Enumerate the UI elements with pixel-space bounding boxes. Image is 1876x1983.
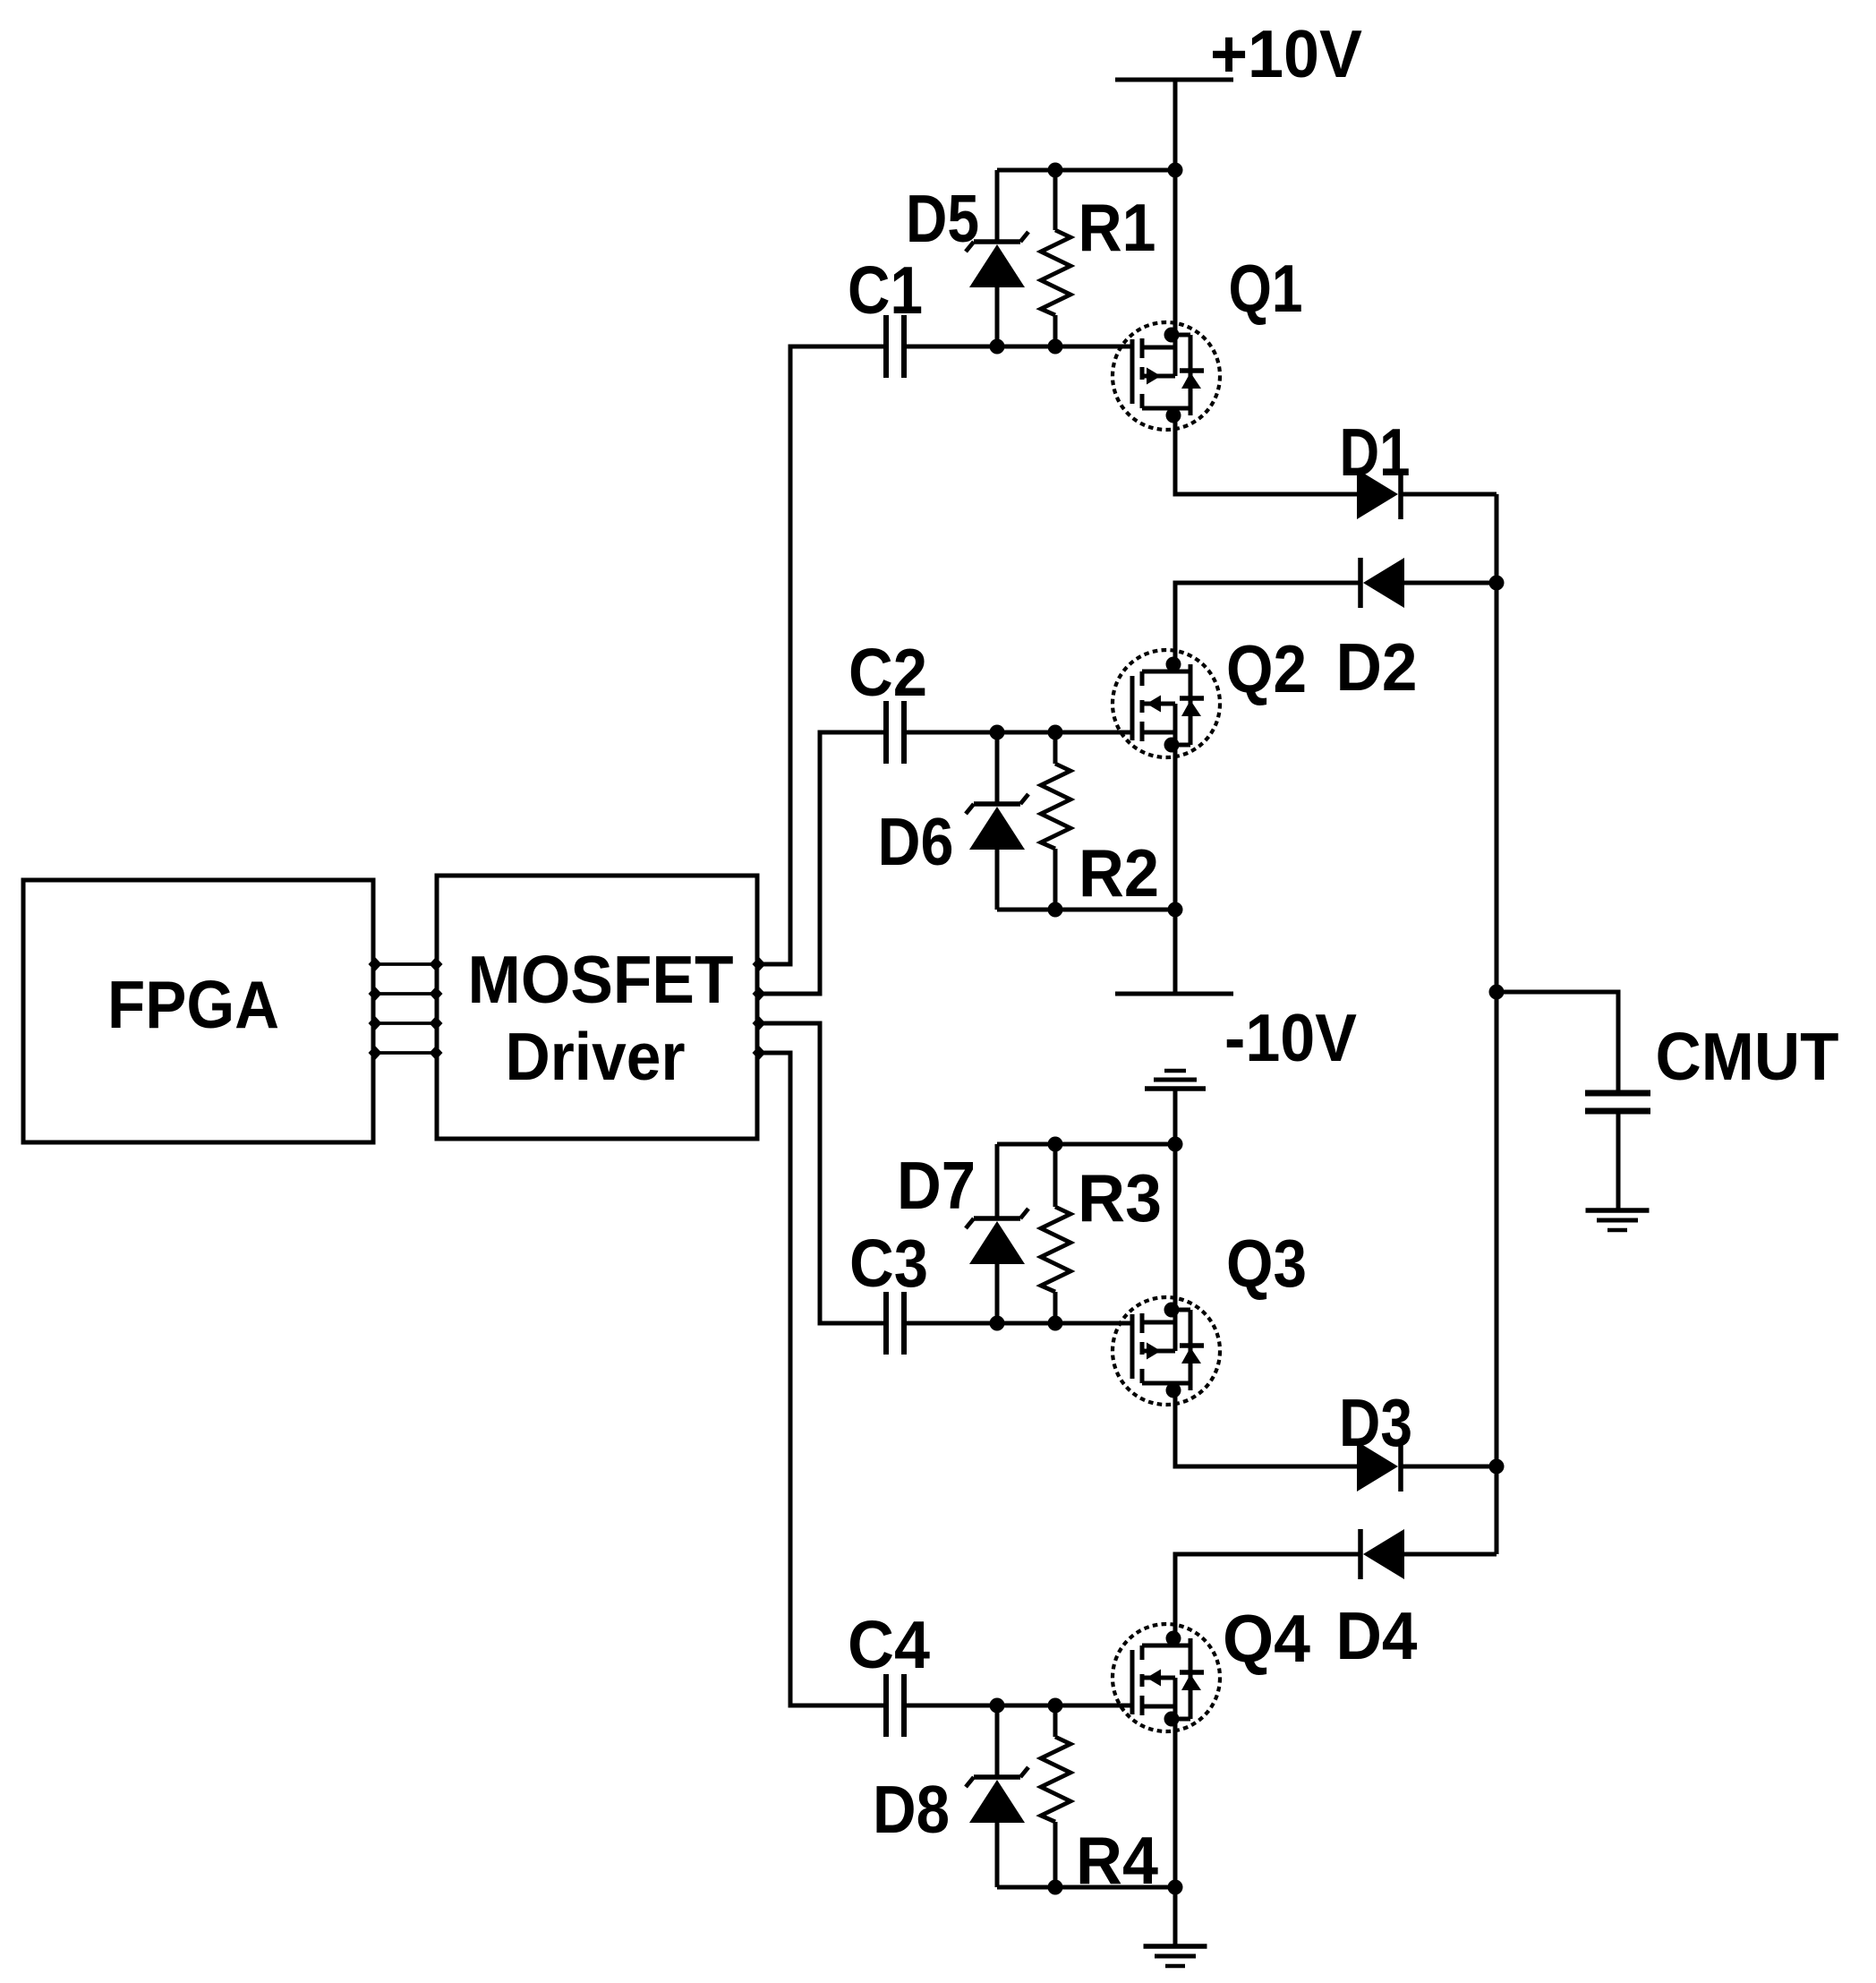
label D4 <box>1336 1598 1418 1673</box>
pin dot <box>430 1016 443 1030</box>
svg-text:R2: R2 <box>1079 835 1159 910</box>
node junction <box>1048 1880 1063 1895</box>
wire driver out 1 to C1 <box>757 346 884 964</box>
svg-text:D2: D2 <box>1336 629 1418 705</box>
label D8 <box>873 1772 950 1847</box>
pin dot <box>430 957 443 971</box>
wire FPGA to driver signal 2 <box>373 992 437 996</box>
node junction <box>1048 339 1063 355</box>
power -10V tap <box>1145 1071 1206 1144</box>
node junction <box>990 725 1005 740</box>
svg-text:Q3: Q3 <box>1226 1226 1307 1301</box>
wire C3 to Q3 gate <box>907 1321 1132 1326</box>
node junction <box>1048 725 1063 740</box>
wire C4 to Q4 gate <box>907 1704 1132 1708</box>
wire net D7 R3 top <box>997 1142 1175 1147</box>
svg-text:D7: D7 <box>897 1148 976 1223</box>
svg-text:D5: D5 <box>906 181 979 256</box>
wire net R2 D6 bottom <box>997 908 1175 912</box>
zener diode D6 <box>966 732 1028 910</box>
resistor R2 <box>1041 732 1070 910</box>
wire net R4 D8 bottom <box>997 1885 1175 1890</box>
svg-text:D8: D8 <box>873 1772 950 1847</box>
diode D1 <box>1357 469 1401 519</box>
wire driver out 3 to C3 <box>757 1023 884 1323</box>
capacitor C4 <box>886 1674 904 1737</box>
svg-text:C2: C2 <box>848 635 927 710</box>
pin dot <box>430 1046 443 1060</box>
wire D1 to output bus <box>1401 492 1497 497</box>
wire Q1 source to D1 <box>1175 408 1357 494</box>
wire CMUT to ground <box>1616 1114 1621 1210</box>
wire D3 to output bus <box>1401 1465 1497 1469</box>
wire output node to CMUT <box>1497 992 1618 1090</box>
svg-text:Q2: Q2 <box>1226 631 1307 706</box>
wire FPGA to driver signal 4 <box>373 1051 437 1055</box>
label D5 <box>906 181 979 256</box>
svg-text:D1: D1 <box>1340 415 1411 490</box>
svg-text:Driver: Driver <box>506 1019 686 1094</box>
node junction <box>1168 902 1183 918</box>
node junction <box>1489 985 1505 1000</box>
pin dot <box>753 1016 766 1030</box>
label C1 <box>848 252 923 328</box>
node junction <box>1048 1316 1063 1331</box>
resistor R3 <box>1041 1144 1070 1323</box>
MOSFET Driver block <box>437 876 757 1139</box>
pin dot <box>753 987 766 1001</box>
wire C1 to Q1 gate <box>907 345 1132 349</box>
diode D4 <box>1360 1529 1404 1579</box>
wire C2 to Q2 gate <box>907 731 1132 735</box>
label D1 <box>1340 415 1411 490</box>
label Q1 <box>1229 251 1303 326</box>
zener diode D5 <box>966 170 1028 346</box>
wire Q2 drain to D2 <box>1175 583 1360 664</box>
node junction <box>1489 1459 1505 1474</box>
svg-text:D3: D3 <box>1339 1385 1412 1460</box>
svg-text:C3: C3 <box>849 1226 928 1301</box>
label +10V <box>1210 16 1362 91</box>
capacitor C3 <box>886 1292 904 1355</box>
label R2 <box>1079 835 1159 910</box>
svg-text:FPGA: FPGA <box>107 967 279 1042</box>
zener diode D8 <box>966 1705 1028 1887</box>
pin dot <box>753 957 766 971</box>
wire FPGA to driver signal 1 <box>373 962 437 966</box>
wire Q4 drain to D4 <box>1175 1554 1360 1638</box>
svg-text:R1: R1 <box>1079 190 1156 265</box>
svg-text:CMUT: CMUT <box>1656 1019 1839 1094</box>
transistor Q1 <box>1113 322 1220 430</box>
node junction <box>1168 1880 1183 1895</box>
wire Q3 drain <box>1173 1144 1178 1310</box>
wire Q3 source to D3 <box>1175 1383 1357 1466</box>
label R4 <box>1076 1823 1158 1898</box>
label D6 <box>878 804 954 879</box>
capacitor C1 <box>886 315 904 378</box>
pin dot <box>369 1046 382 1060</box>
wire Q4 source to ground <box>1173 1719 1178 1945</box>
transistor Q4 <box>1113 1624 1220 1731</box>
pin dot <box>369 1016 382 1030</box>
label D3 <box>1339 1385 1412 1460</box>
transistor Q3 <box>1113 1297 1220 1405</box>
label C4 <box>848 1607 930 1682</box>
zener diode D7 <box>966 1144 1028 1323</box>
node junction <box>1048 1698 1063 1714</box>
svg-text:R3: R3 <box>1078 1160 1162 1235</box>
label Q2 <box>1226 631 1307 706</box>
label C3 <box>849 1226 928 1301</box>
resistor R1 <box>1041 170 1070 346</box>
pin dot <box>753 1046 766 1060</box>
wire net D5 R1 top <box>997 168 1175 173</box>
wire Q2 source to -10V <box>1173 745 1178 994</box>
label Q3 <box>1226 1226 1307 1301</box>
FPGA block U-FPGA <box>23 880 373 1142</box>
svg-text:Q4: Q4 <box>1223 1601 1310 1676</box>
diode D3 <box>1357 1441 1401 1492</box>
node junction <box>990 1316 1005 1331</box>
label Q4 <box>1223 1601 1310 1676</box>
node junction <box>1048 1137 1063 1152</box>
wire D4 to output bus <box>1404 1552 1497 1557</box>
label R1 <box>1079 190 1156 265</box>
node junction <box>1168 163 1183 178</box>
label C2 <box>848 635 927 710</box>
capacitor CMUT <box>1585 1093 1650 1111</box>
label FPGA <box>107 967 279 1042</box>
svg-text:C4: C4 <box>848 1607 930 1682</box>
node junction <box>1168 1137 1183 1152</box>
label R3 <box>1078 1160 1162 1235</box>
label MOSFET Driver <box>468 942 734 1094</box>
label CMUT <box>1656 1019 1839 1094</box>
node junction <box>990 1698 1005 1714</box>
wire output bus <box>1495 494 1499 1554</box>
label D2 <box>1336 629 1418 705</box>
node junction <box>990 339 1005 355</box>
node junction <box>1048 163 1063 178</box>
ground <box>1144 1946 1207 1966</box>
pin dot <box>369 987 382 1001</box>
svg-text:D4: D4 <box>1336 1598 1418 1673</box>
transistor Q2 <box>1113 650 1220 757</box>
power -10V rail <box>1115 992 1233 996</box>
wire driver out 4 to C4 <box>757 1053 884 1705</box>
resistor R4 <box>1041 1705 1070 1887</box>
pin dot <box>369 957 382 971</box>
wire D2 to output bus <box>1404 581 1497 585</box>
svg-text:-10V: -10V <box>1224 1000 1357 1075</box>
pin dot <box>430 987 443 1001</box>
wire FPGA to driver signal 3 <box>373 1021 437 1025</box>
wire driver out 2 to C2 <box>757 732 884 994</box>
svg-text:+10V: +10V <box>1210 16 1362 91</box>
svg-text:D6: D6 <box>878 804 954 879</box>
svg-text:MOSFET: MOSFET <box>468 942 734 1017</box>
node junction <box>1489 576 1505 591</box>
svg-text:C1: C1 <box>848 252 923 328</box>
diode D2 <box>1360 558 1404 608</box>
capacitor C2 <box>886 701 904 764</box>
ground <box>1586 1210 1650 1230</box>
node junction <box>1048 902 1063 918</box>
power +10V rail <box>1115 80 1233 335</box>
label -10V <box>1224 1000 1357 1075</box>
label D7 <box>897 1148 976 1223</box>
svg-text:Q1: Q1 <box>1229 251 1303 326</box>
